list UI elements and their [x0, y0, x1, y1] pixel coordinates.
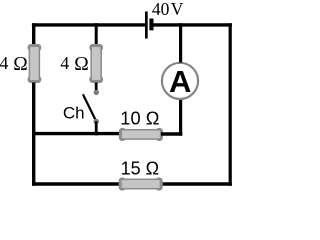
wire middle (left rail to R3) — [32, 132, 121, 135]
battery B1 long plate (+) — [145, 12, 148, 39]
svg-text:A: A — [169, 64, 191, 99]
wire left rail upper (top wire to R1) — [32, 23, 35, 45]
wire stub switch pivot to middle wire — [95, 121, 98, 135]
wire bottom — [32, 182, 232, 185]
wire ammeter column lower (middle wire up to ammeter) — [179, 100, 182, 136]
resistor R2 4 ohm (second vertical) — [90, 45, 102, 83]
svg-text:15 Ω: 15 Ω — [121, 159, 159, 179]
wire right rail — [229, 23, 232, 186]
wire left rail lower (R1 to bottom wire) — [32, 83, 35, 186]
wire ammeter column upper (top wire down to ammeter) — [179, 23, 182, 62]
wire middle right (R3 to ammeter column) — [161, 132, 182, 135]
wire stub R2 to switch top contact — [95, 83, 98, 91]
wire top segment left (battery to left rail) — [32, 23, 145, 26]
switch Ch top contact dot — [94, 90, 99, 95]
switch Ch lever (open) — [83, 94, 96, 121]
svg-text:Ch: Ch — [63, 104, 85, 123]
resistor R4 15 ohm (bottom horizontal) — [119, 178, 162, 190]
svg-text:V: V — [171, 0, 184, 19]
ammeter A1 — [162, 63, 198, 99]
wire top segment right (battery to right rail) — [153, 23, 232, 26]
resistor R1 4 ohm (left vertical) — [28, 45, 40, 83]
svg-text:4Ω: 4Ω — [0, 53, 28, 75]
svg-text:40: 40 — [152, 0, 170, 19]
svg-text:4Ω: 4Ω — [60, 53, 89, 75]
wire second branch top (top wire to R2) — [95, 23, 98, 45]
battery B1 short plate (-) — [149, 19, 153, 31]
svg-text:10 Ω: 10 Ω — [120, 107, 159, 128]
switch Ch bottom pivot dot — [94, 119, 99, 124]
resistor R3 10 ohm (middle horizontal) — [120, 129, 163, 141]
